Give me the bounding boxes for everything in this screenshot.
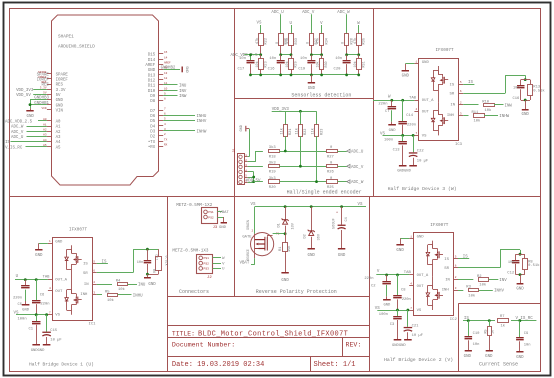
section caption Half Bridge Device 2 (V) xyxy=(384,357,453,363)
capacitor C1 100n xyxy=(18,315,41,345)
svg-text:10k: 10k xyxy=(353,61,358,67)
net label ADC_VDD_2.5 xyxy=(231,54,259,58)
svg-text:P$3: P$3 xyxy=(204,267,210,271)
wire IS net IC2 xyxy=(458,256,469,260)
svg-text:D4: D4 xyxy=(150,125,155,129)
resistor R29 10k xyxy=(285,55,299,75)
op-amp IC1 IFX007T body xyxy=(53,238,97,327)
svg-text:D6: D6 xyxy=(150,115,155,119)
svg-text:GND: GND xyxy=(27,115,35,119)
svg-text:R22: R22 xyxy=(265,38,269,44)
resistor R27 0 ohm xyxy=(327,146,338,159)
svg-text:10k: 10k xyxy=(474,119,482,124)
IC2 low side mosfet xyxy=(426,277,443,310)
net label ADC_U xyxy=(271,11,284,15)
svg-text:10 µF: 10 µF xyxy=(50,339,62,343)
wire ADC_U down xyxy=(280,14,282,34)
wire gnd drop from arduino GND pins xyxy=(29,99,32,108)
svg-text:D7: D7 xyxy=(150,110,155,114)
svg-text:D2: D2 xyxy=(150,136,155,140)
capacitor C9 10n xyxy=(516,321,530,352)
svg-text:GND: GND xyxy=(56,99,64,103)
svg-text:VIN: VIN xyxy=(56,109,64,113)
wire VS rail IC1 xyxy=(14,312,48,317)
wire U to TAB xyxy=(15,276,50,281)
svg-text:VS: VS xyxy=(358,203,363,207)
svg-text:100n: 100n xyxy=(379,313,388,317)
svg-text:3k3: 3k3 xyxy=(269,145,277,150)
capacitor C13 100n xyxy=(384,135,407,165)
svg-text:5V: 5V xyxy=(43,92,47,95)
svg-text:15k: 15k xyxy=(287,246,292,252)
svg-text:GND: GND xyxy=(308,87,316,91)
net label V phase xyxy=(377,270,380,274)
svg-text:C13: C13 xyxy=(393,148,401,152)
svg-text:10k: 10k xyxy=(468,293,476,298)
capacitor C19 10n xyxy=(298,55,315,75)
wire Q1 source to VBAT xyxy=(251,258,255,264)
svg-text:VIN: VIN xyxy=(41,107,46,110)
svg-text:D15: D15 xyxy=(148,54,156,58)
svg-text:METZ-0.5MM-1X3: METZ-0.5MM-1X3 xyxy=(172,249,209,254)
svg-text:IFX007T: IFX007T xyxy=(69,228,87,233)
svg-text:INHV: INHV xyxy=(494,290,504,294)
wire INHW from D3 xyxy=(163,131,207,135)
net label RES xyxy=(41,81,49,87)
svg-text:R21: R21 xyxy=(289,129,293,135)
svg-text:GATE: GATE xyxy=(242,236,252,240)
ground below C7 xyxy=(388,124,396,133)
svg-text:C6: C6 xyxy=(40,293,45,297)
svg-text:+: + xyxy=(336,212,338,216)
resistor R21 11k xyxy=(279,125,293,137)
svg-text:GND: GND xyxy=(56,104,64,108)
svg-text:C4: C4 xyxy=(345,217,349,221)
IC3 low side mosfet xyxy=(431,102,448,135)
svg-text:Hall/Single ended encoder: Hall/Single ended encoder xyxy=(287,189,362,195)
resistor R27 0 ohm xyxy=(307,34,320,46)
svg-text:GNDHB3: GNDHB3 xyxy=(34,97,49,101)
svg-text:D9: D9 xyxy=(150,95,155,99)
svg-text:12: 12 xyxy=(164,77,168,80)
section caption Connectors xyxy=(179,289,209,295)
wire VS down xyxy=(260,25,262,34)
svg-text:A5: A5 xyxy=(56,146,61,150)
net label W xyxy=(357,22,360,26)
svg-text:RX: RX xyxy=(164,143,168,146)
svg-text:REV:: REV: xyxy=(346,342,362,349)
arduino left pins with names xyxy=(47,73,69,150)
svg-text:1k: 1k xyxy=(501,324,506,329)
svg-text:13: 13 xyxy=(164,72,168,75)
svg-text:11k: 11k xyxy=(311,128,316,134)
title block frame xyxy=(168,326,370,372)
svg-text:C15: C15 xyxy=(50,329,58,333)
svg-text:C3: C3 xyxy=(390,323,395,327)
svg-text:IS: IS xyxy=(5,141,10,145)
svg-text:GND: GND xyxy=(148,283,156,287)
svg-text:R20: R20 xyxy=(269,186,277,190)
wire Q1 gate node xyxy=(273,232,287,235)
svg-text:100n: 100n xyxy=(18,318,27,322)
arduino right pins with names xyxy=(145,51,171,150)
svg-text:C17: C17 xyxy=(237,67,244,71)
svg-text:GND: GND xyxy=(417,236,425,240)
svg-text:A3: A3 xyxy=(43,134,47,137)
transistor Q1 reverse polarity PMOS xyxy=(242,220,279,261)
svg-text:VBAT: VBAT xyxy=(240,262,250,266)
svg-text:C8: C8 xyxy=(401,289,406,293)
svg-text:36V: 36V xyxy=(318,233,322,240)
svg-text:GND: GND xyxy=(308,254,316,258)
svg-text:INHW: INHW xyxy=(197,131,207,135)
wire VDD_3V3 to 3.3V pin xyxy=(16,86,47,92)
svg-text:10k: 10k xyxy=(285,61,290,67)
capacitor C16 10n xyxy=(268,55,285,75)
svg-text:C7: C7 xyxy=(385,110,390,114)
svg-text:10n: 10n xyxy=(269,57,276,61)
svg-text:IN: IN xyxy=(84,283,89,287)
wire R18 to R27 xyxy=(279,151,326,153)
svg-text:0.51k: 0.51k xyxy=(528,263,540,268)
svg-text:ARDUINO_SHIELD: ARDUINO_SHIELD xyxy=(58,45,95,50)
svg-text:100n: 100n xyxy=(384,138,393,142)
wire U down xyxy=(291,25,293,34)
capacitor C15 10uF polarized xyxy=(42,315,62,345)
svg-text:J2: J2 xyxy=(207,276,212,280)
svg-text:R33: R33 xyxy=(295,38,299,44)
svg-text:VBAT: VBAT xyxy=(220,211,230,215)
pin number VIN xyxy=(41,107,46,110)
resistor R3 10k (INH) xyxy=(458,286,504,299)
net label U at J2 xyxy=(213,268,226,272)
svg-text:10n: 10n xyxy=(524,343,531,347)
svg-text:C1: C1 xyxy=(28,328,33,332)
svg-text:INW: INW xyxy=(179,95,187,99)
capacitor C22 10uF polarized xyxy=(409,135,429,165)
ground symbols below C13 C22 xyxy=(397,165,417,174)
svg-text:10k: 10k xyxy=(255,61,260,67)
IC2 high side mosfet xyxy=(426,241,443,277)
svg-text:INH: INH xyxy=(447,114,455,118)
svg-text:INHW: INHW xyxy=(499,115,509,119)
resistor R6 0.51k (IS filter) xyxy=(146,249,169,275)
resistor R18 3k3 xyxy=(269,145,280,159)
resistor R1 15k xyxy=(279,234,292,273)
wire INU from D11 xyxy=(163,85,187,89)
IC1 high side mosfet xyxy=(65,245,82,281)
svg-text:A1: A1 xyxy=(43,123,47,126)
ground below R6 filter xyxy=(144,274,156,287)
svg-text:RES: RES xyxy=(56,84,64,88)
svg-text:V_IS_RC: V_IS_RC xyxy=(516,317,534,321)
svg-text:GND: GND xyxy=(338,254,346,258)
svg-text:INU: INU xyxy=(179,85,187,89)
svg-text:GND: GND xyxy=(281,279,289,283)
IFX007T label IC3 xyxy=(436,48,454,53)
svg-text:INHV: INHV xyxy=(197,120,207,124)
connector J1 body xyxy=(233,148,248,185)
net label SPARE xyxy=(37,71,50,77)
svg-text:IC3: IC3 xyxy=(455,143,463,147)
wire W down xyxy=(358,25,360,34)
svg-text:AREF: AREF xyxy=(164,61,171,64)
svg-text:R10: R10 xyxy=(482,100,490,104)
svg-text:D8: D8 xyxy=(150,100,155,104)
svg-text:220n: 220n xyxy=(40,303,49,307)
svg-text:47k: 47k xyxy=(316,38,321,44)
section caption Sensorless detection xyxy=(291,93,351,99)
svg-text:IN: IN xyxy=(445,278,450,282)
svg-text:D11: D11 xyxy=(148,85,156,89)
svg-text:0.51k: 0.51k xyxy=(164,256,169,266)
wire INW from D9 xyxy=(163,95,187,99)
svg-text:R3: R3 xyxy=(466,286,471,290)
svg-text:47k: 47k xyxy=(255,38,260,44)
svg-text:IS: IS xyxy=(468,81,473,85)
wire INHU from D6 xyxy=(163,115,207,119)
capacitor C16 10n (IS filter) xyxy=(513,80,531,102)
resistor R7 1k xyxy=(498,315,509,329)
section caption Reverse Polarity Protection xyxy=(256,289,337,295)
svg-text:3k3: 3k3 xyxy=(269,176,277,181)
svg-text:GND: GND xyxy=(148,69,156,73)
ground at J3 pin2 xyxy=(217,217,227,230)
wire IS to A4 xyxy=(5,139,47,145)
capacitor C12 10n (IS filter) xyxy=(507,254,525,276)
svg-text:220n: 220n xyxy=(378,103,387,107)
svg-text:C2: C2 xyxy=(371,285,376,289)
svg-text:A0: A0 xyxy=(43,118,47,121)
wire SR to RC filter IC2 xyxy=(458,250,521,268)
svg-text:OUT_A: OUT_A xyxy=(417,274,429,278)
svg-text:SR: SR xyxy=(83,272,88,276)
svg-text:10 µF: 10 µF xyxy=(417,159,429,163)
wire W to TAB xyxy=(373,96,417,101)
wire VS rail IC2 xyxy=(375,307,410,312)
svg-text:0: 0 xyxy=(342,42,346,44)
resistor R10 10k (IN) xyxy=(463,100,512,113)
resistor R28 0 ohm xyxy=(342,34,355,46)
net label V at J2 xyxy=(213,262,226,266)
svg-text:SR: SR xyxy=(450,93,455,97)
svg-text:C14: C14 xyxy=(406,114,414,118)
svg-text:560UF: 560UF xyxy=(333,218,337,229)
svg-text:5V: 5V xyxy=(56,94,61,98)
svg-text:IS: IS xyxy=(83,263,88,267)
arduino shield U1 body ARDUINO_SHIELD xyxy=(52,15,159,185)
svg-text:GND: GND xyxy=(383,304,391,308)
ground symbol below arduino GND pins xyxy=(26,108,34,119)
wire ADC_V to A2 xyxy=(11,128,47,134)
svg-text:220n: 220n xyxy=(364,277,373,281)
wire IS net IC3 xyxy=(463,81,474,85)
capacitor C4 560uF polarized xyxy=(333,207,349,249)
wire INV from D10 xyxy=(163,90,187,94)
svg-text:Half Bridge Device 2 (V): Half Bridge Device 2 (V) xyxy=(384,357,453,363)
op-amp IC2 IFX007T body xyxy=(414,233,458,322)
svg-text:Sheet: 1/1: Sheet: 1/1 xyxy=(314,361,356,369)
svg-text:R5: R5 xyxy=(105,290,110,294)
resistor R34 47k xyxy=(316,34,330,46)
ground symbols below C1 C15 xyxy=(31,344,51,353)
ground symbol below R1 xyxy=(281,272,289,283)
wire SR to RC filter IC3 xyxy=(463,75,526,93)
svg-text:A5: A5 xyxy=(43,144,47,147)
IC1 pin stubs xyxy=(48,240,97,315)
connector J3 METZ-0.5MM-1X2 xyxy=(176,203,218,230)
svg-text:SOURCE: SOURCE xyxy=(246,249,250,261)
resistor R22 47k xyxy=(255,34,269,46)
net label U xyxy=(290,22,293,26)
svg-text:A0: A0 xyxy=(56,121,61,125)
svg-text:INU: INU xyxy=(138,284,146,288)
ground below C10 xyxy=(464,350,472,359)
svg-text:ADC_U: ADC_U xyxy=(351,151,364,155)
svg-text:GND: GND xyxy=(464,355,472,359)
wire VS rail RPP xyxy=(255,205,367,233)
svg-text:GND: GND xyxy=(184,66,188,72)
svg-text:ADC_W: ADC_W xyxy=(351,181,364,185)
svg-text:•TX: •TX xyxy=(148,141,156,145)
capacitor C5 220n xyxy=(13,280,30,308)
svg-text:Reverse Polarity Protection: Reverse Polarity Protection xyxy=(256,289,337,295)
svg-text:INHU: INHU xyxy=(197,115,207,119)
op-amp IC3 IFX007T body xyxy=(419,59,463,148)
resistor R22 11k xyxy=(295,125,309,137)
resistor R26 0 ohm xyxy=(276,34,289,46)
resistor R2 10k (IN) xyxy=(458,275,507,288)
capacitor C21 10uF polarized xyxy=(404,310,424,340)
svg-text:D5: D5 xyxy=(150,120,155,124)
ground symbol rotated right of arduino xyxy=(182,66,188,72)
wire mid node xyxy=(310,45,323,56)
wire current sense rail xyxy=(463,319,536,322)
resistor R20 3k3 xyxy=(269,176,280,190)
svg-text:ADC_V: ADC_V xyxy=(302,11,315,15)
svg-text:0: 0 xyxy=(276,42,280,44)
svg-text:GND: GND xyxy=(22,308,30,312)
svg-text:Half Bridge Device 3 (W): Half Bridge Device 3 (W) xyxy=(388,186,457,192)
svg-text:VDD_5V: VDD_5V xyxy=(16,94,31,98)
svg-text:GND: GND xyxy=(55,240,63,244)
wire GNDHB1 to GND pin xyxy=(30,102,50,106)
svg-text:R27: R27 xyxy=(327,155,334,159)
svg-text:IC1: IC1 xyxy=(89,323,97,327)
ground below R9 xyxy=(485,350,493,359)
svg-text:INH: INH xyxy=(80,293,88,297)
svg-text:11k: 11k xyxy=(295,128,300,134)
svg-text:VS: VS xyxy=(417,309,422,313)
svg-text:0.51k: 0.51k xyxy=(533,89,545,94)
wire mid node xyxy=(279,45,292,56)
wire R23 to row3 xyxy=(316,136,318,182)
net label ADC_V xyxy=(338,164,364,169)
ground below R8 filter xyxy=(516,275,524,292)
svg-text:IC2: IC2 xyxy=(450,318,458,322)
svg-text:INW: INW xyxy=(505,104,513,108)
svg-text:P$1: P$1 xyxy=(208,210,214,214)
svg-text:A2: A2 xyxy=(56,131,61,135)
svg-text:P$2: P$2 xyxy=(204,261,210,265)
ground at IC1 pin1 xyxy=(35,243,48,258)
net label VDD_5V (hall) xyxy=(246,179,261,183)
svg-text:ADC_W: ADC_W xyxy=(337,11,350,15)
wire VS rail IC3 xyxy=(380,132,415,137)
net label VS (RPP left) xyxy=(251,203,256,207)
svg-text:GND: GND xyxy=(240,125,244,131)
wire ADC_W down xyxy=(346,14,348,34)
net label ADC_V xyxy=(302,11,315,15)
net label ADC_W xyxy=(338,180,364,185)
wire GNDHB3 to GND pin xyxy=(30,97,50,101)
svg-text:OUT: OUT xyxy=(417,285,425,289)
svg-text:Date: 19.03.2019 02:34: Date: 19.03.2019 02:34 xyxy=(172,361,264,369)
wire SR to RC filter IC1 xyxy=(97,248,159,273)
svg-text:SHAPE1: SHAPE1 xyxy=(58,35,74,40)
wire V down xyxy=(321,25,323,34)
ground below R13 filter xyxy=(522,100,530,117)
svg-text:IS: IS xyxy=(450,83,455,87)
connector J2 METZ-0.5MM-1X3 xyxy=(172,249,212,281)
junction dots hall rows xyxy=(284,150,318,183)
ground symbol below C4 xyxy=(338,248,346,258)
svg-text:TAB: TAB xyxy=(43,276,51,280)
resistor R4 10k (IN) xyxy=(97,280,146,293)
svg-text:GND: GND xyxy=(516,288,524,292)
wire GNDHB2 from arduino right GND pin xyxy=(161,66,180,70)
svg-text:47k: 47k xyxy=(285,38,290,44)
svg-text:3.3V: 3.3V xyxy=(40,86,47,89)
svg-text:10k: 10k xyxy=(485,108,493,113)
svg-text:ADC_U: ADC_U xyxy=(11,136,24,140)
svg-text:TAB: TAB xyxy=(409,96,417,100)
svg-text:R22: R22 xyxy=(304,129,308,135)
wire V_IS_RC to A5 xyxy=(5,144,47,150)
svg-text:P$2: P$2 xyxy=(208,215,214,219)
svg-text:3.3V: 3.3V xyxy=(56,89,66,93)
net label IOREF xyxy=(37,76,50,82)
resistor R9 1k (current sense) xyxy=(485,321,496,351)
svg-text:TAB: TAB xyxy=(404,271,412,275)
svg-text:SPARE: SPARE xyxy=(56,73,69,77)
resistor R11 10k (INH) xyxy=(463,111,509,124)
net label VBAT (RPP) xyxy=(240,262,250,266)
wire J1 pin3 to R19 xyxy=(248,166,263,168)
wire VDD_5V to R20 xyxy=(254,181,263,183)
net label IS (current sense) xyxy=(464,317,469,321)
svg-text:14: 14 xyxy=(164,56,168,59)
svg-text:R11: R11 xyxy=(472,111,480,115)
svg-text:10n: 10n xyxy=(513,86,519,90)
svg-text:R25: R25 xyxy=(327,186,335,190)
svg-text:3k3: 3k3 xyxy=(269,160,277,165)
resistor R23 10k xyxy=(255,55,269,75)
svg-text:10V: 10V xyxy=(291,222,295,229)
svg-text:R1: R1 xyxy=(279,247,283,251)
svg-text:GND: GND xyxy=(516,356,524,360)
svg-text:GNDGND: GNDGND xyxy=(397,170,411,174)
svg-text:IOREF: IOREF xyxy=(38,76,47,79)
wire R19 to R26 xyxy=(279,166,326,168)
svg-text:R2: R2 xyxy=(477,275,482,279)
svg-text:IOREF: IOREF xyxy=(56,79,69,83)
svg-text:D13: D13 xyxy=(148,74,156,78)
svg-text:GND: GND xyxy=(35,254,43,258)
svg-text:RES: RES xyxy=(41,81,46,84)
svg-text:GND: GND xyxy=(402,75,410,79)
svg-text:10n: 10n xyxy=(335,57,342,61)
